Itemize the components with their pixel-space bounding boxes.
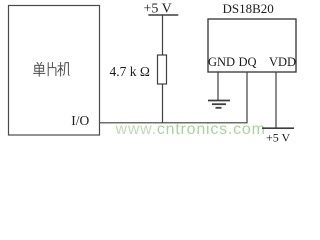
wire supply to resistor <box>162 15 164 55</box>
DS18B20 box U2 <box>208 19 296 72</box>
wire resistor to DQ node <box>162 84 164 123</box>
+5 V supply bar (bottom) <box>262 127 294 129</box>
char 单 <box>37 62 42 65</box>
svg-text:+5 V: +5 V <box>266 130 291 143</box>
char 片 <box>48 62 56 76</box>
ground symbol <box>208 101 230 108</box>
microcontroller box U1 (单片机) <box>9 6 100 136</box>
svg-text:DS18B20: DS18B20 <box>223 1 274 16</box>
char 机 <box>58 62 64 76</box>
GND pin wire <box>217 72 219 100</box>
VDD pin wire <box>275 72 277 128</box>
svg-text:4.7 k Ω: 4.7 k Ω <box>110 64 150 79</box>
svg-text:I/O: I/O <box>71 113 89 128</box>
label 单片机 (drawn strokes) <box>33 62 69 77</box>
wire I/O to DQ node <box>100 122 247 124</box>
DQ pin wire <box>246 72 248 123</box>
supply rail bar (top) <box>148 14 178 16</box>
svg-text:VDD: VDD <box>269 55 296 69</box>
svg-text:DQ: DQ <box>239 55 257 69</box>
svg-text:GND: GND <box>208 55 235 69</box>
resistor R1 body <box>158 55 167 84</box>
